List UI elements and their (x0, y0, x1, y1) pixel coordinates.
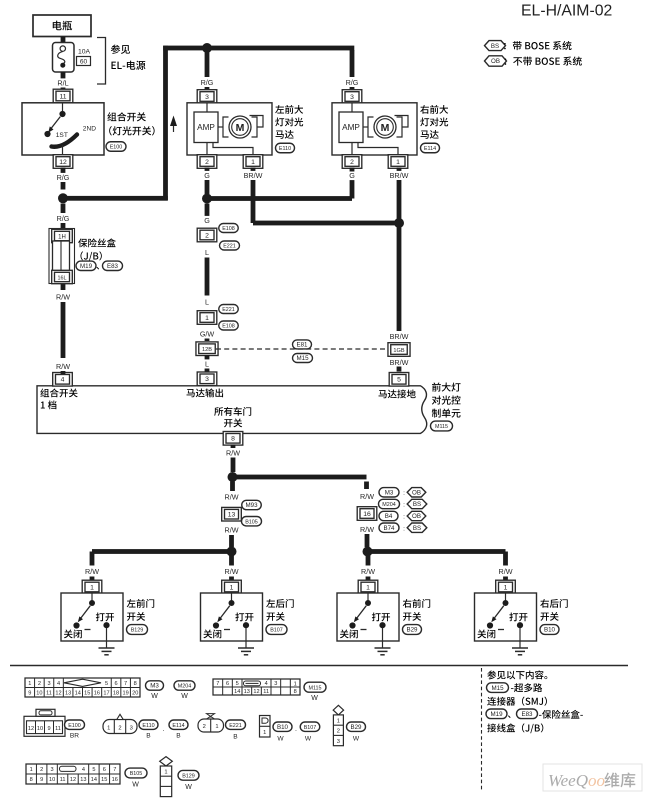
svg-text:M19: M19 (490, 711, 503, 718)
wire pin8 down to node D (231, 458, 236, 473)
svg-text:1: 1 (366, 584, 370, 591)
svg-text:11: 11 (60, 777, 66, 783)
svg-text:1: 1 (504, 584, 508, 591)
svg-text:4: 4 (82, 767, 85, 773)
connector pin 2 E108/E221 (197, 228, 217, 242)
svg-text:12B: 12B (202, 347, 212, 353)
svg-text:E100: E100 (110, 145, 123, 151)
svg-text:1: 1 (28, 681, 31, 687)
svg-text:16L: 16L (58, 275, 67, 281)
node C junction (394, 218, 404, 228)
svg-text:E108: E108 (222, 324, 235, 330)
svg-text:M15: M15 (491, 685, 504, 692)
svg-text:OB: OB (412, 513, 421, 520)
svg-text:BR/W: BR/W (244, 171, 263, 180)
svg-text:W: W (181, 693, 188, 700)
svg-text:B: B (233, 734, 238, 741)
wire fuse to pin 11, label R/L (61, 72, 66, 79)
svg-text:E83: E83 (521, 711, 533, 718)
svg-text:BS: BS (491, 43, 499, 50)
connector B10/B107 1-pin (260, 716, 271, 738)
svg-text:2: 2 (350, 159, 354, 166)
pin 8 all door switches (223, 432, 243, 446)
svg-text:E221: E221 (229, 723, 242, 729)
wire battery to fuse (61, 37, 66, 44)
svg-text:18: 18 (113, 691, 119, 697)
connector B29 3-pin vertical (333, 705, 343, 715)
combination switch box 组合开关(灯光开关) E100 (22, 103, 104, 155)
badges B4 OB (379, 511, 398, 520)
node A junction (58, 193, 68, 203)
svg-text:M: M (381, 122, 390, 134)
svg-text:4: 4 (265, 681, 268, 687)
svg-text:1: 1 (164, 769, 167, 775)
svg-text:1: 1 (107, 725, 110, 731)
svg-text:2: 2 (118, 725, 121, 731)
svg-text:E221: E221 (223, 244, 236, 250)
svg-text:W: W (185, 784, 192, 791)
wire node A right to riser (63, 196, 168, 201)
svg-text:R/W: R/W (360, 525, 374, 534)
svg-text:2: 2 (205, 159, 209, 166)
wire left motor pin1 BR/W down (251, 168, 256, 172)
svg-text:W: W (132, 782, 139, 789)
svg-text:1: 1 (263, 730, 266, 736)
svg-text:E221: E221 (222, 307, 235, 313)
svg-text:M115: M115 (308, 685, 321, 691)
legend badge BS (485, 41, 506, 51)
badges B74 BS (379, 523, 399, 532)
connector E110/E114 3-pin (103, 720, 137, 734)
svg-text:8: 8 (134, 681, 137, 687)
svg-text:6: 6 (226, 681, 229, 687)
connector pin 12B SMJ (205, 339, 210, 342)
svg-text:B105: B105 (130, 771, 143, 777)
svg-text:E114: E114 (424, 146, 436, 152)
svg-text:R/G: R/G (201, 78, 214, 87)
svg-text:11: 11 (46, 691, 52, 697)
wire node E to left front switch (92, 549, 233, 554)
svg-text:17: 17 (103, 691, 109, 697)
svg-text:BS: BS (413, 525, 421, 532)
svg-text:14: 14 (91, 777, 97, 783)
svg-text:R/W: R/W (225, 493, 239, 502)
svg-text:G: G (204, 216, 210, 225)
svg-text:BR/W: BR/W (390, 358, 409, 367)
svg-text:B107: B107 (270, 628, 283, 634)
riser wire up to top bus (163, 46, 168, 201)
wire node A to fuse block, label R/G (61, 204, 66, 214)
svg-text:3: 3 (350, 94, 354, 101)
svg-text:15: 15 (84, 691, 90, 697)
svg-text:1: 1 (396, 159, 400, 166)
bracket see EL-power 参见 EL-电源 (97, 38, 106, 85)
svg-text:R/W: R/W (360, 492, 374, 501)
svg-text:2: 2 (40, 767, 43, 773)
svg-text:WeeQoo: WeeQoo (548, 771, 605, 790)
svg-text:1ST: 1ST (56, 132, 68, 139)
right branch wire R/W (364, 482, 369, 490)
svg-text:1: 1 (294, 682, 297, 688)
top bus wire (163, 46, 354, 51)
svg-text:12: 12 (55, 691, 61, 697)
svg-text:2: 2 (205, 232, 209, 239)
svg-text:1: 1 (230, 584, 234, 591)
svg-text:B: B (176, 733, 181, 740)
svg-text:OB: OB (412, 490, 421, 497)
svg-text:B10: B10 (544, 627, 556, 634)
svg-text:11: 11 (59, 93, 66, 100)
svg-text:M93: M93 (245, 502, 258, 509)
svg-text:B10: B10 (277, 724, 289, 731)
svg-text:E100: E100 (68, 723, 81, 729)
node D junction (228, 472, 238, 482)
wire node B to right motor pin 2 (207, 196, 352, 201)
svg-text:12: 12 (253, 689, 259, 695)
connector pin 1GB SMJ (388, 343, 410, 357)
svg-text:R/G: R/G (57, 214, 70, 223)
svg-text:1GB: 1GB (393, 348, 404, 354)
svg-text:M115: M115 (435, 424, 448, 430)
svg-text::: : (403, 490, 405, 497)
svg-text:4: 4 (61, 377, 65, 384)
svg-text:BR/W: BR/W (390, 171, 409, 180)
svg-text:1H: 1H (58, 234, 66, 240)
wire BR/W down right column (397, 227, 402, 331)
junction dot on bus (202, 43, 212, 53)
svg-text::: : (403, 502, 405, 509)
svg-text:R/W: R/W (499, 567, 513, 576)
svg-text:14: 14 (234, 689, 240, 695)
svg-text:R/W: R/W (56, 362, 70, 371)
svg-text:.: . (163, 726, 165, 733)
svg-text:13: 13 (65, 691, 71, 697)
svg-text:R/W: R/W (361, 567, 375, 576)
svg-text:20: 20 (132, 691, 138, 697)
pin 11 of combination switch E100 (53, 89, 73, 103)
svg-text:15: 15 (101, 777, 107, 783)
svg-text:14: 14 (75, 691, 81, 697)
door switch left front 左前门开关 B129 with ground (90, 552, 95, 566)
svg-text:M204: M204 (178, 684, 192, 690)
node F junction (363, 547, 373, 557)
svg-text:.: . (295, 726, 297, 733)
svg-text:16: 16 (94, 691, 100, 697)
svg-text:3: 3 (47, 681, 50, 687)
svg-text:19: 19 (122, 691, 128, 697)
svg-text:L: L (205, 360, 209, 369)
fuse 10A 60 (53, 43, 75, 73)
wire L long segment (205, 258, 210, 296)
svg-text:3: 3 (51, 767, 54, 773)
svg-text:5: 5 (105, 681, 108, 687)
svg-text:5: 5 (236, 681, 239, 687)
wire node F to right rear switch (368, 549, 506, 554)
svg-text:8: 8 (294, 689, 297, 695)
svg-text:R/G: R/G (346, 78, 359, 87)
node E junction (227, 547, 237, 557)
svg-text:B105: B105 (245, 519, 258, 525)
dashed divider (481, 668, 483, 792)
svg-text:R/W: R/W (56, 293, 70, 302)
svg-text:13: 13 (80, 777, 86, 783)
svg-text:1: 1 (337, 718, 340, 724)
svg-text:2: 2 (38, 681, 41, 687)
svg-text:W: W (305, 736, 312, 743)
svg-text:7: 7 (216, 681, 219, 687)
watermark WeeQoo (543, 764, 642, 791)
svg-text:11: 11 (263, 689, 269, 695)
svg-text:BR: BR (70, 733, 79, 740)
svg-text:2ND: 2ND (83, 125, 96, 132)
svg-text:B129: B129 (182, 774, 195, 780)
svg-text:EL-H/AIM-02: EL-H/AIM-02 (521, 3, 612, 20)
pin 5 马达接地 (389, 373, 409, 387)
node B junction (202, 194, 212, 204)
pin 4 组合开关 1档 (53, 373, 73, 387)
svg-text:M15: M15 (296, 355, 309, 362)
svg-text:3: 3 (205, 376, 209, 383)
svg-text:E81: E81 (296, 342, 308, 349)
svg-text:B74: B74 (383, 525, 395, 532)
svg-text:11: 11 (55, 726, 61, 732)
wire bus to right motor pin 3, label R/G (350, 50, 355, 77)
svg-text:M3: M3 (385, 490, 394, 497)
svg-text:10A: 10A (78, 49, 91, 56)
svg-text:5: 5 (92, 767, 95, 773)
wire left motor pin2 G down to node B (205, 168, 210, 172)
svg-text:R/W: R/W (225, 526, 239, 535)
svg-text:1: 1 (30, 767, 33, 773)
svg-text:4: 4 (57, 681, 60, 687)
SMJ dashed line E81/M15 (216, 348, 390, 350)
svg-text:M: M (236, 122, 245, 134)
door switch right rear 右后门开关 B10 with ground (503, 552, 508, 566)
svg-text:E110: E110 (279, 146, 291, 152)
svg-text:E108: E108 (222, 226, 235, 232)
svg-text:9: 9 (47, 726, 50, 732)
svg-text:R/W: R/W (226, 448, 240, 457)
svg-text:E83: E83 (107, 263, 119, 270)
separator line (10, 665, 628, 667)
battery box 电瓶 (33, 15, 91, 37)
svg-text:R/G: R/G (57, 173, 70, 182)
svg-text:M19: M19 (80, 263, 93, 270)
svg-text:R/W: R/W (225, 567, 239, 576)
svg-text:E114: E114 (172, 723, 184, 729)
connector 16 M3/M204/B4/B74 (357, 507, 377, 521)
svg-text:B4: B4 (385, 513, 393, 520)
svg-text:1: 1 (215, 724, 218, 730)
svg-text:B29: B29 (350, 724, 362, 731)
svg-text:1: 1 (251, 159, 255, 166)
connector pin 1 E221/E108 (219, 305, 239, 314)
svg-text:W: W (151, 693, 158, 700)
badges M3 OB (379, 488, 399, 497)
svg-text:10: 10 (37, 726, 43, 732)
svg-text:3: 3 (337, 739, 340, 745)
svg-text:1: 1 (90, 584, 94, 591)
svg-text:OB: OB (491, 58, 500, 65)
headlamp aiming motor right 右前大灯对光马达 E114 (342, 90, 362, 104)
badges M204 BS (379, 499, 400, 508)
wire bus to left motor pin 3, label R/G (205, 50, 210, 77)
svg-text:B29: B29 (406, 627, 418, 634)
svg-text::: : (403, 525, 405, 532)
svg-text:B: B (146, 733, 151, 740)
pin 3 马达输出 (197, 372, 217, 386)
svg-text:R/L: R/L (57, 79, 68, 88)
wire R/G from pin 12 to node A (61, 168, 66, 174)
svg-text:6: 6 (114, 681, 117, 687)
svg-text:10: 10 (49, 777, 55, 783)
svg-text:AMP: AMP (197, 123, 215, 132)
svg-text:12: 12 (59, 159, 67, 166)
connector label E100 (106, 142, 126, 152)
svg-text:G: G (204, 171, 210, 180)
wire across to node C (253, 221, 399, 226)
svg-text:60: 60 (80, 58, 88, 65)
svg-text:E110: E110 (142, 723, 154, 729)
unit label 前大灯对光控制单元 M115 (432, 382, 441, 391)
fuse block J/B 保险丝盒 M19 E83 (49, 229, 75, 284)
left branch wire R/W (230, 482, 235, 492)
svg-text:L: L (205, 298, 209, 307)
wire R/W from fuse block to pin 4 (61, 284, 66, 291)
svg-text:3: 3 (205, 94, 209, 101)
direction arrow up (173, 124, 175, 132)
svg-text:BS: BS (413, 501, 421, 508)
svg-text::: : (403, 514, 405, 521)
svg-text:3: 3 (274, 681, 277, 687)
svg-text:W: W (311, 695, 318, 702)
svg-text:16: 16 (363, 511, 371, 518)
connector 13 M93/B105 (222, 507, 242, 521)
notes text right bottom (487, 670, 496, 679)
wire node D to right branch (233, 475, 367, 480)
headlamp aiming motor left 左前大灯对光马达 E110 (197, 90, 217, 104)
headlamp aiming control unit box 前大灯对光控制单元 M115 (37, 386, 427, 434)
connector table B105 16-pin (26, 764, 120, 784)
svg-text:BR/W: BR/W (390, 332, 409, 341)
svg-text:M3: M3 (150, 683, 159, 690)
svg-text:W: W (277, 736, 284, 743)
wire node B down G (205, 204, 210, 217)
svg-text:G: G (349, 171, 355, 180)
svg-text:W: W (353, 736, 360, 743)
svg-text:6: 6 (103, 767, 106, 773)
connector table M115 14-pin (213, 679, 300, 695)
svg-text:9: 9 (28, 691, 31, 697)
svg-text:8: 8 (30, 777, 33, 783)
svg-text:10: 10 (36, 691, 42, 697)
legend badge OB (485, 56, 507, 66)
svg-text:9: 9 (40, 777, 43, 783)
svg-text:7: 7 (124, 681, 127, 687)
label 所有车门开关 (214, 407, 223, 416)
svg-text:12: 12 (70, 777, 76, 783)
svg-text:7: 7 (113, 767, 116, 773)
wire right motor pin1 BR/W down (397, 168, 402, 172)
svg-text:1: 1 (205, 315, 209, 322)
pin 12 of combination switch (53, 155, 73, 169)
svg-text:8: 8 (231, 436, 235, 443)
connector E221 2-pin (207, 714, 215, 719)
svg-text:B107: B107 (304, 725, 317, 731)
svg-text:L: L (205, 248, 209, 257)
svg-text:2: 2 (337, 729, 340, 735)
svg-text:M204: M204 (382, 502, 396, 508)
svg-text:16: 16 (112, 777, 118, 783)
svg-text:12: 12 (28, 726, 34, 732)
svg-text:2: 2 (203, 724, 206, 730)
svg-text:R/W: R/W (85, 567, 99, 576)
door switch right front 右前门开关 B29 with ground (366, 552, 371, 566)
connector E100 4-pin (24, 716, 65, 736)
svg-text:5: 5 (397, 377, 401, 384)
door switch left rear 左后门开关 B107 with ground (229, 552, 234, 566)
svg-text:13: 13 (244, 689, 250, 695)
svg-text:AMP: AMP (342, 123, 360, 132)
connector B129 vertical (160, 757, 173, 766)
svg-text:G/W: G/W (200, 330, 215, 339)
svg-text:13: 13 (228, 512, 236, 519)
svg-text:3: 3 (130, 725, 133, 731)
switch 2ND position arc (52, 135, 78, 147)
connector table M3/M204 20-pin (25, 678, 140, 697)
svg-text:B129: B129 (131, 628, 144, 634)
